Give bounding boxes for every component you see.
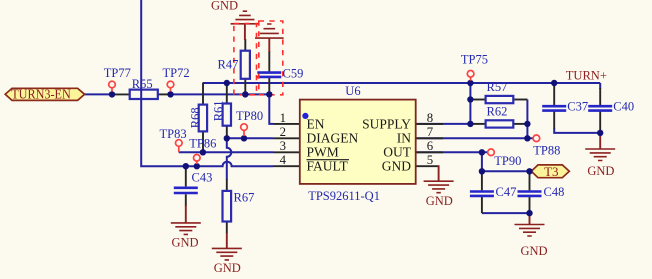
port TURN3-EN [5, 87, 84, 102]
svg-text:GND: GND [382, 159, 411, 174]
ground GND top-left (inverted, feeds R47) [231, 11, 260, 40]
resistor R55 body [130, 90, 158, 99]
svg-text:3: 3 [280, 139, 286, 153]
svg-text:GND: GND [171, 236, 198, 250]
port T3 [531, 164, 569, 179]
node junction R62 left / pin8 [467, 121, 473, 127]
op-amp U6 TPS92611-Q1 body [300, 100, 416, 184]
svg-text:R61: R61 [212, 100, 226, 121]
dashed highlight box around R47 [234, 24, 257, 95]
node junction R57 left [467, 96, 473, 102]
svg-text:TP86: TP86 [189, 136, 216, 150]
wire pin4 net: vertical from sheet top at x141, corner, to IC pin4, hop over R67 line [141, 0, 273, 166]
test point TP80 [241, 124, 248, 136]
capacitor C48 plates [518, 190, 542, 193]
svg-text:TP80: TP80 [236, 109, 263, 123]
svg-text:1: 1 [280, 111, 286, 125]
svg-text:GND: GND [214, 261, 241, 275]
wire IC pin stub 7 [416, 137, 443, 139]
svg-text:U6: U6 [345, 84, 360, 98]
test point TP72 [167, 81, 174, 91]
pin 1 marker dot inside U6 [302, 113, 308, 119]
svg-text:R57: R57 [487, 80, 508, 94]
ground GND below C47/C48 [515, 213, 545, 236]
svg-text:6: 6 [427, 139, 434, 153]
svg-text:C43: C43 [192, 171, 213, 185]
svg-text:R68: R68 [188, 107, 202, 128]
wire black lead C37 bottom [553, 110, 555, 128]
wire black lead R68 top from supply rail corner [202, 83, 204, 105]
wire black lead R68 bottom to pin3 net [202, 131, 204, 152]
test point TP86 [194, 155, 201, 165]
wire black lead C40 top [599, 88, 601, 105]
svg-text:R67: R67 [234, 191, 255, 205]
wire black lead C37 top [553, 84, 555, 105]
node junction R61 top on supply rail [224, 80, 230, 86]
dashed highlight box around C59 [259, 21, 283, 95]
wire C47/C48 bottom row to GND node [482, 212, 530, 214]
ground GND below C43 [171, 205, 201, 234]
node junction C48 top / T3 [526, 168, 532, 174]
wire net SUPPLY rail: R68 corner across top to TURN+ corner [203, 82, 600, 84]
wire black lead R67 top [226, 179, 228, 191]
node junction C37 on supply rail [551, 80, 557, 86]
wire IC pin stub 5 [416, 165, 439, 167]
wire black lead R47 top from ground [244, 39, 246, 51]
wire R61 node down to R67, hop over pin3 wire [227, 138, 232, 179]
resistor R68 body [199, 105, 207, 132]
node junction C59/EN corner [266, 91, 272, 97]
wire black lead C48 bottom [529, 197, 531, 213]
svg-text:TURN3-EN: TURN3-EN [11, 87, 71, 102]
wire black lead C47 top [481, 171, 483, 190]
wire black lead C48 top [529, 171, 531, 190]
node junction R61 bottom / R67 branch [224, 135, 230, 141]
wire T3 row: C47 top to C48 top and T3 port [482, 170, 530, 172]
ground GND below C37/C40 [585, 133, 615, 161]
ground GND at U6 pin5 [424, 165, 454, 192]
svg-text:GND: GND [587, 164, 614, 178]
wire IC pin stub 3 [273, 151, 300, 153]
svg-text:PWM: PWM [307, 145, 339, 160]
svg-text:TP72: TP72 [163, 66, 190, 80]
node junction OUT branch on pin6 net [479, 149, 485, 155]
wire C37 bottom corner to GND node [554, 128, 600, 133]
svg-text:DIAGEN: DIAGEN [307, 131, 359, 146]
resistor R67 body [223, 191, 232, 222]
wire IC pin stub 1 [273, 123, 300, 125]
ground GND below R67 [212, 233, 242, 260]
node junction C43 on pin4 net [183, 163, 189, 169]
wire black lead R55 left [112, 93, 130, 95]
svg-text:2: 2 [280, 125, 286, 139]
resistor R57 body [486, 96, 514, 103]
node junction rail on pin7 net [524, 135, 530, 141]
capacitor C40 plates [588, 105, 612, 108]
svg-text:TP75: TP75 [461, 53, 488, 67]
svg-text:TPS92611-Q1: TPS92611-Q1 [308, 189, 380, 203]
resistor R62 body [486, 120, 514, 127]
svg-text:TP90: TP90 [494, 154, 521, 168]
node junction R47/EN [242, 91, 248, 97]
svg-text:5: 5 [427, 153, 433, 167]
svg-text:IN: IN [397, 131, 411, 146]
resistor R61 body [223, 104, 231, 126]
svg-text:C40: C40 [613, 100, 634, 114]
wire TURN+ corner down to C40 [599, 83, 601, 89]
node junction R62 right [524, 121, 530, 127]
wire black lead R55 right [158, 93, 171, 95]
svg-text:OUT: OUT [383, 145, 411, 160]
node junction C40 bottom / GND [597, 130, 603, 136]
wire IC pin stub 4 [273, 165, 300, 167]
wire pin3 net: TP83 stem to IC pin3 [179, 151, 273, 153]
wire IC pin stub 6 [416, 151, 443, 153]
svg-text:7: 7 [427, 125, 434, 139]
node junction R68 bottom on pin3 net [200, 149, 206, 155]
wire black leads R62 [470, 123, 485, 125]
wire pin7 net: IC pin7 to TP88 [416, 137, 534, 139]
wire IC pin stub 8 [416, 123, 443, 125]
wire OUT branch down to T3 row [481, 152, 483, 171]
svg-text:GND: GND [211, 0, 238, 13]
wire black lead R61 bottom [226, 126, 228, 139]
wire black lead R61 top from supply rail [226, 83, 228, 104]
capacitor C37 plates [542, 105, 566, 108]
wire left rail: TP75 node down to pin8 row [469, 83, 471, 124]
svg-text:SUPPLY: SUPPLY [362, 116, 411, 131]
svg-text:T3: T3 [544, 164, 558, 179]
node junction TP75 on supply rail [467, 80, 473, 86]
capacitor C43 plates [174, 187, 198, 190]
node junction TP72/EN [167, 91, 173, 97]
test point TP90 [488, 149, 495, 156]
test point TP77 [109, 81, 116, 91]
capacitor C47 plates [470, 190, 494, 193]
wire black lead R67 bottom [226, 222, 228, 234]
test point TP88 [533, 135, 540, 142]
svg-text:EN: EN [307, 116, 325, 131]
test point TP83 [176, 140, 183, 153]
wire black lead C59 bottom to EN net [268, 77, 270, 95]
node junction C47 top [479, 168, 485, 174]
svg-text:R47: R47 [218, 58, 239, 72]
node junction TP77/EN [109, 91, 115, 97]
svg-text:R62: R62 [487, 105, 508, 119]
ground (inverted, feeds C59) [255, 24, 284, 52]
test point TP75 [467, 71, 474, 81]
svg-text:TP77: TP77 [104, 66, 131, 80]
wire black lead C43 top [185, 166, 187, 186]
svg-text:4: 4 [280, 153, 287, 167]
svg-text:GND: GND [520, 244, 547, 258]
wire right rail: R57 right down to pin7 wire [526, 100, 528, 139]
wire black lead C47 bottom [481, 197, 483, 213]
svg-text:8: 8 [427, 111, 433, 125]
capacitor C59 plates [257, 71, 281, 74]
wire black leads R57 [470, 99, 485, 101]
wire pin8 net: IC pin8 to R57/R62 left rail [416, 123, 471, 125]
node junction TP80 on pin2 net [241, 135, 247, 141]
svg-text:R55: R55 [132, 77, 153, 91]
svg-text:TP88: TP88 [533, 144, 560, 158]
svg-text:FAULT: FAULT [307, 159, 349, 174]
node junction TP86 on pin4 net [194, 163, 200, 169]
svg-text:C48: C48 [544, 185, 565, 199]
node junction C48 bottom / GND [526, 210, 532, 216]
wire black lead C43 bottom [185, 194, 187, 206]
wire black lead C59 top from ground [268, 51, 270, 72]
wire pin6 net: IC pin6 to TP90 [416, 151, 488, 153]
wire net EN: TP72 to R47/C59 nodes, then down to pin1 [171, 94, 274, 124]
wire black lead R47 bottom to EN net [244, 79, 246, 95]
svg-text:C37: C37 [567, 100, 588, 114]
svg-text:GND: GND [426, 194, 453, 208]
svg-text:C59: C59 [283, 67, 304, 81]
wire black lead C40 bottom [599, 110, 601, 133]
svg-text:C47: C47 [496, 185, 517, 199]
wire net TURN3-EN: port to TP77 node [85, 93, 112, 95]
wire pin2 net: R61 bottom node to TP80 node to IC pin2 [227, 137, 273, 139]
svg-text:TURN+: TURN+ [566, 68, 607, 82]
resistor R47 body [241, 51, 250, 79]
svg-text:TP83: TP83 [160, 127, 187, 141]
wire IC pin stub 2 [273, 137, 300, 139]
